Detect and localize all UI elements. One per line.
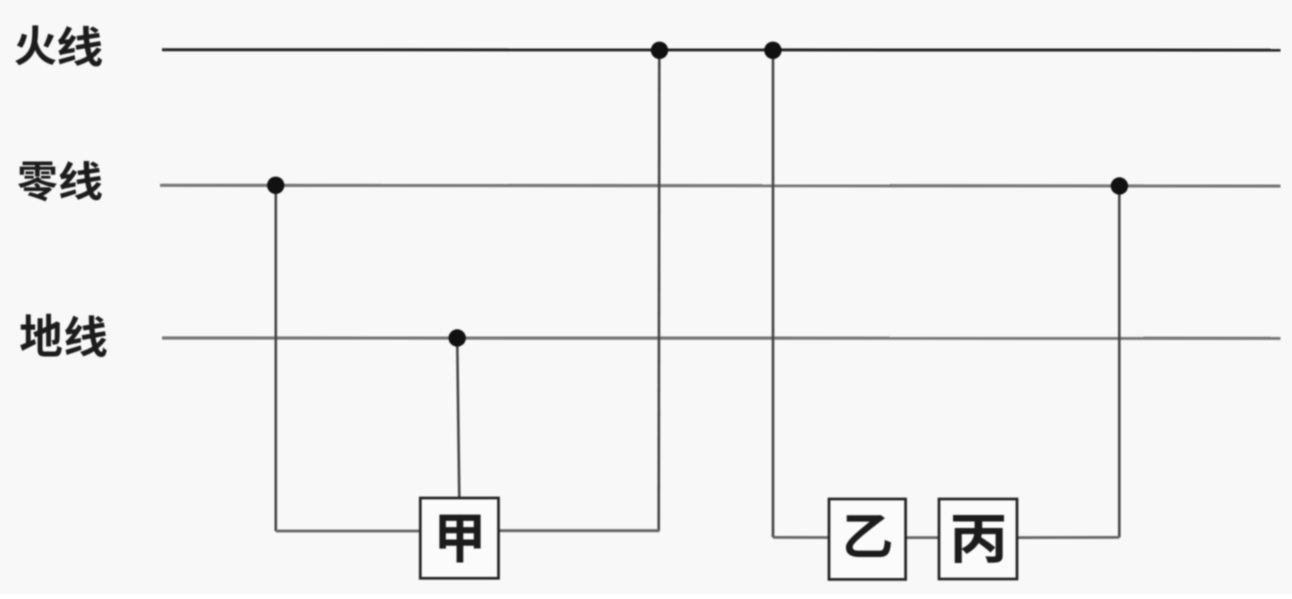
node: junction on live bus at 乙丙 branch [764, 42, 781, 59]
wire: neutral drop to 乙丙 branch right [1118, 186, 1121, 537]
wire: bottom left to box 甲 [276, 530, 421, 533]
node: junction on live bus at 甲 branch [651, 42, 668, 59]
node: junction on neutral bus at 甲 branch [267, 177, 284, 194]
wire: box 甲 to live drop [499, 529, 660, 532]
wire: neutral drop to lamp 甲 left [274, 185, 277, 531]
label 丙 [953, 515, 1004, 563]
label 地线 (earth wire) [20, 314, 106, 357]
wire: neutral bus 零线 [160, 184, 1281, 188]
wire: live drop to 乙丙 branch [772, 50, 775, 537]
node: junction on earth bus at 甲 [449, 329, 466, 346]
label 火线 (live wire) [15, 25, 102, 66]
appliance 丙 box [939, 499, 1017, 579]
label 甲 [439, 515, 480, 563]
node: junction on neutral bus at 乙丙 branch [1111, 177, 1128, 194]
wire: live drop to box 乙 [773, 536, 829, 539]
wire: earth bus 地线 [162, 336, 1281, 339]
label 零线 (neutral wire) [18, 161, 102, 201]
appliance 甲 box [420, 498, 498, 578]
wire: live bus 火线 [162, 48, 1281, 51]
wire: live drop to lamp 甲 right [657, 50, 660, 531]
wire: box 丙 to neutral drop [1017, 536, 1119, 539]
label 乙 [846, 515, 891, 557]
wire: earth drop to lamp 甲 top [457, 338, 459, 498]
appliance 乙 box [829, 499, 906, 579]
wire: box 乙 to box 丙 [906, 536, 939, 539]
